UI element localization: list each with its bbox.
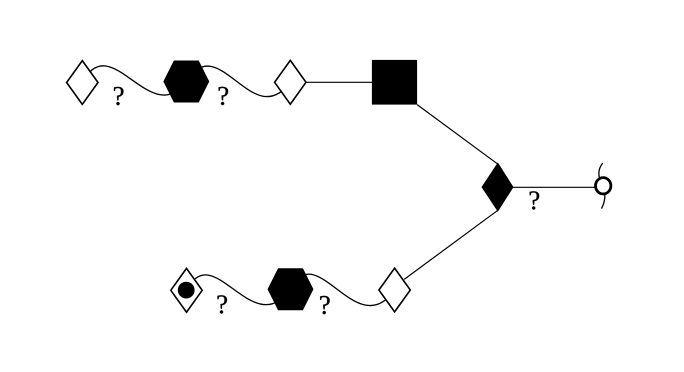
label ?3	[530, 191, 539, 209]
wire wavy bond B2	[186, 66, 290, 97]
node white diamond D1	[67, 61, 98, 105]
label ?1	[114, 87, 123, 105]
node reducing-end circle	[596, 178, 611, 194]
wire wavy bond B3	[187, 275, 291, 305]
node black hexagon H1	[164, 61, 209, 102]
node white diamond D2	[275, 60, 306, 104]
node white diamond with dot D4	[171, 268, 202, 312]
node black diamond D5	[482, 164, 512, 211]
node white diamond D3	[379, 268, 410, 312]
wire wavy bond B4	[291, 274, 395, 306]
wire L4	[498, 186, 597, 188]
wire wavy bond B1	[82, 66, 186, 95]
wire L1	[290, 81, 394, 83]
label ?2	[219, 87, 228, 105]
wire L2	[417, 105, 498, 165]
label ?4	[218, 295, 227, 313]
node black hexagon H2	[268, 269, 313, 310]
node black dot in D4	[178, 282, 195, 299]
node black square	[372, 60, 417, 105]
label ?5	[320, 296, 329, 314]
wire reducing-end squiggle	[599, 163, 605, 209]
wire L3	[404, 210, 498, 279]
